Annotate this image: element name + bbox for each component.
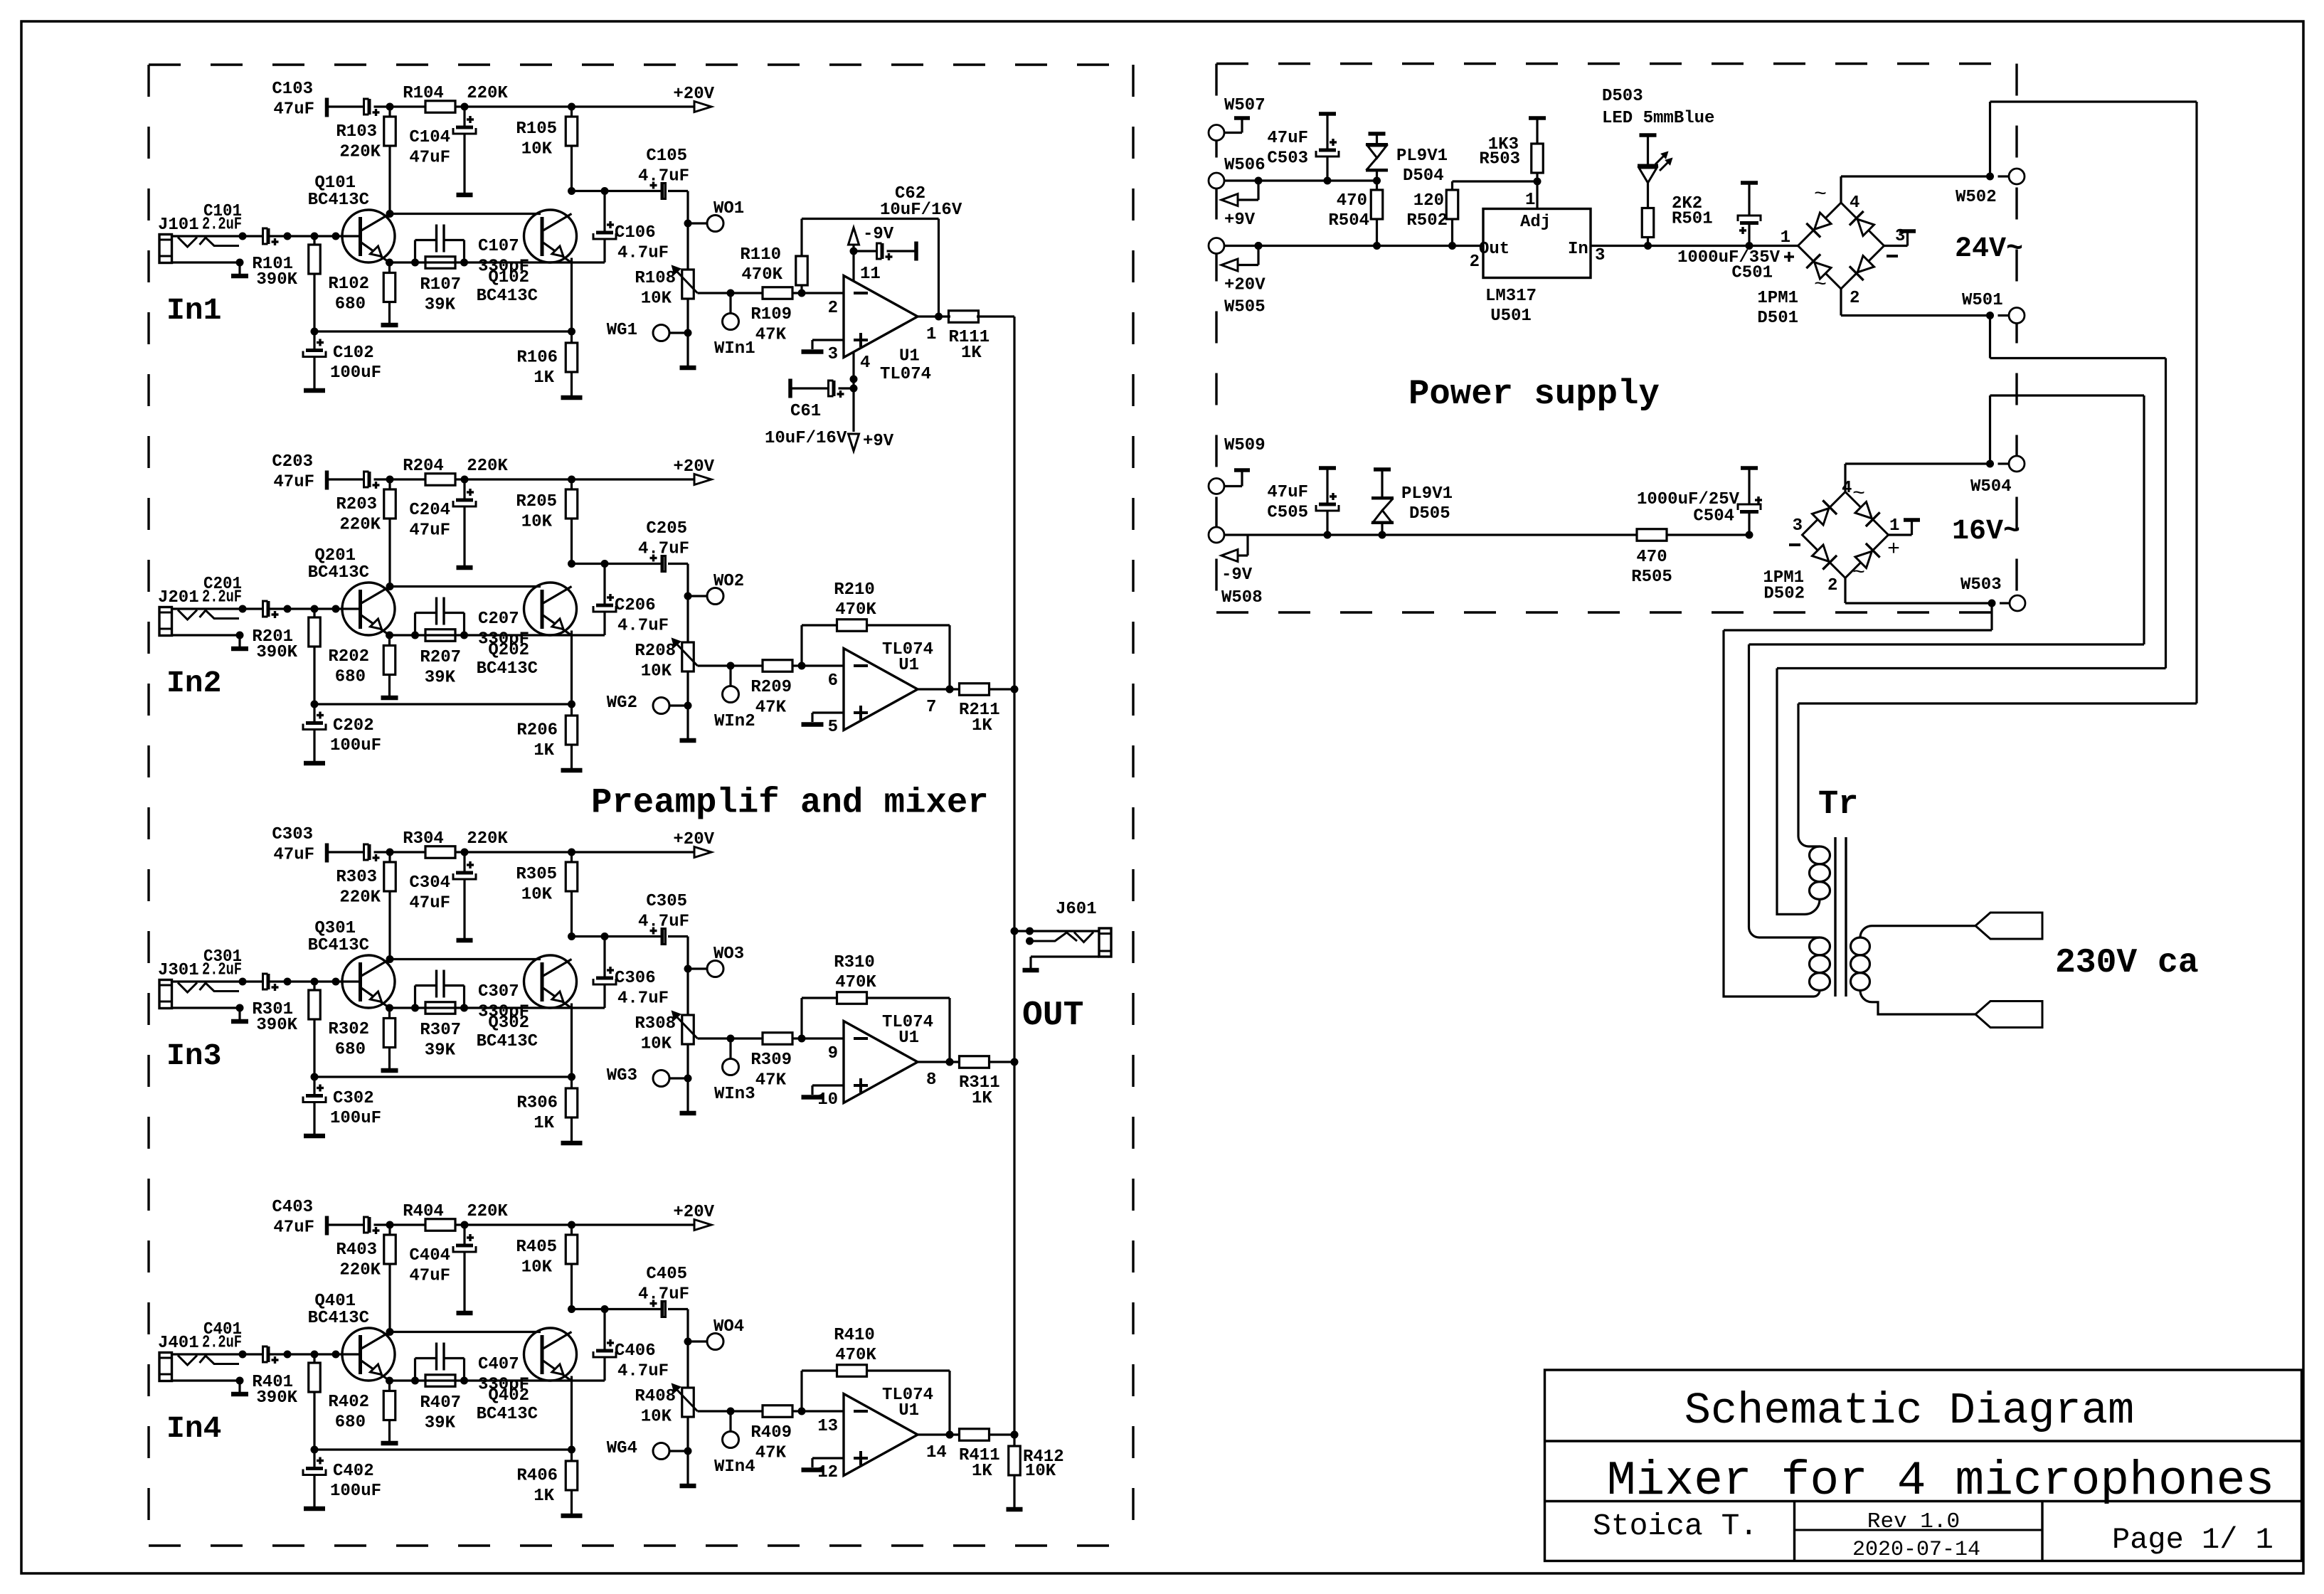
svg-text:3: 3 — [828, 345, 838, 364]
diode D501 upper-left (4 to 1) — [1815, 213, 1831, 229]
svg-text:R207: R207 — [420, 648, 461, 667]
terminal WO3 — [688, 967, 707, 969]
terminal W507 — [1209, 125, 1224, 141]
svg-text:R110: R110 — [740, 245, 781, 265]
capacitor C304 47uF — [463, 852, 465, 871]
svg-text:W502: W502 — [1956, 188, 1997, 207]
capacitor C405 4.7uF — [661, 1302, 664, 1317]
svg-text:R308: R308 — [635, 1014, 676, 1034]
resistor R302 680 — [388, 1008, 391, 1019]
svg-text:C203: C203 — [272, 452, 313, 472]
svg-text:4: 4 — [1842, 479, 1852, 498]
svg-text:4.7uF: 4.7uF — [617, 989, 669, 1009]
op-amp U1 TL074 channel 2 — [844, 649, 918, 730]
zener diode D504 PL9V1 — [1373, 177, 1381, 185]
svg-text:W501: W501 — [1962, 291, 2003, 310]
svg-text:Adj: Adj — [1520, 213, 1551, 232]
svg-text:C202: C202 — [333, 716, 374, 735]
jack tip contact marks — [178, 1356, 197, 1366]
wire emitter row to R106 — [314, 330, 572, 332]
wire bridge corner4 to W502 — [1840, 176, 1842, 203]
diode D501 upper-right (3 to 4) — [1857, 219, 1874, 235]
wire In pin to bridge — [1591, 245, 1798, 247]
svg-text:47uF: 47uF — [1267, 483, 1308, 502]
resistor R305 10K — [571, 852, 573, 862]
bridge D501 diamond — [1798, 203, 1884, 289]
resistor R505 470 — [1637, 529, 1667, 541]
svg-text:OUT: OUT — [1022, 997, 1083, 1035]
wire 24V winding top to W502 chain — [1798, 703, 1820, 846]
svg-text:1K: 1K — [534, 1487, 554, 1506]
svg-text:680: 680 — [335, 295, 366, 314]
capacitor C401 2.2uF — [263, 1346, 268, 1362]
svg-text:10K: 10K — [521, 886, 553, 905]
svg-text:390K: 390K — [256, 1388, 297, 1408]
svg-text:R405: R405 — [516, 1238, 557, 1257]
resistor R102 680 — [388, 262, 391, 273]
svg-text:Mixer for 4 microphones: Mixer for 4 microphones — [1607, 1454, 2275, 1509]
ground C102 — [304, 388, 325, 393]
svg-text:2: 2 — [1827, 576, 1837, 595]
svg-text:+20V: +20V — [673, 85, 714, 104]
svg-text:C501: C501 — [1731, 264, 1773, 283]
wire C201 to Q201 base — [268, 607, 360, 610]
resistor R402 680 — [388, 1381, 391, 1391]
resistor R201 390K — [313, 609, 315, 617]
wire Q302 emitter down — [571, 1004, 573, 1078]
svg-text:470K: 470K — [741, 265, 782, 285]
svg-text:R503: R503 — [1479, 150, 1520, 169]
svg-text:10K: 10K — [521, 1258, 553, 1277]
svg-text:U1: U1 — [899, 347, 920, 366]
svg-text:R209: R209 — [750, 678, 792, 697]
svg-text:C302: C302 — [333, 1089, 374, 1108]
wire +9V rail — [1224, 179, 1377, 181]
jack sleeve wire — [172, 1006, 240, 1009]
resistor R309 47K — [763, 1033, 792, 1045]
resistor R403 220K — [384, 1235, 396, 1264]
svg-text:R403: R403 — [336, 1240, 377, 1260]
wire Q202 collector node — [568, 560, 575, 568]
svg-text:W508: W508 — [1221, 588, 1263, 607]
wire Q201 emitter node — [386, 632, 393, 639]
svg-text:BC413C: BC413C — [477, 1032, 538, 1051]
resistor R410 470K (feedback) — [800, 1371, 802, 1411]
resistor R412 10K — [1011, 1431, 1019, 1439]
terminal WIn2 — [729, 666, 731, 686]
svg-text:2.2uF: 2.2uF — [202, 961, 242, 980]
power supply dashed box — [1216, 63, 2017, 65]
svg-text:WIn1: WIn1 — [714, 339, 755, 358]
output bus wire — [1013, 317, 1015, 1435]
terminal WG1 — [653, 325, 669, 341]
svg-text:220K: 220K — [339, 888, 381, 908]
svg-text:WIn2: WIn2 — [714, 712, 755, 731]
capacitor C105 4.7uF — [661, 184, 664, 199]
wire Q301 collector to Q302 base — [390, 958, 541, 960]
ground C402 — [304, 1507, 325, 1511]
op-amp U1 TL074 channel 1 — [844, 276, 918, 358]
wire Q301 collector up to R303 — [386, 955, 394, 963]
wire Q102 collector node — [568, 187, 575, 195]
connector J201 input jack — [159, 607, 172, 636]
wire Q301 emitter node — [386, 1004, 393, 1012]
svg-text:R502: R502 — [1406, 211, 1448, 230]
ground plus input — [812, 339, 844, 341]
svg-text:+20V: +20V — [673, 1203, 714, 1222]
LED D503 5mmBlue — [1644, 242, 1652, 250]
svg-text:47uF: 47uF — [273, 846, 314, 865]
svg-text:R107: R107 — [420, 275, 461, 294]
wire Q401 emitter node — [386, 1377, 393, 1385]
resistor R401 390K — [313, 1354, 315, 1363]
svg-text:R402: R402 — [328, 1393, 369, 1412]
svg-text:Page 1/ 1: Page 1/ 1 — [2112, 1523, 2273, 1557]
terminal WG2 — [653, 698, 669, 714]
svg-text:120: 120 — [1413, 191, 1444, 211]
svg-text:47uF: 47uF — [409, 149, 450, 168]
ground R206 — [561, 768, 583, 773]
transistor Q401 BC413C — [342, 1328, 395, 1381]
title block column separators — [1793, 1502, 1795, 1561]
svg-text:Out: Out — [1479, 240, 1509, 259]
svg-text:C303: C303 — [272, 825, 313, 844]
svg-text:W504: W504 — [1970, 477, 2012, 496]
resistor R109 47K — [763, 287, 792, 299]
svg-text:1: 1 — [1889, 516, 1899, 536]
svg-text:R103: R103 — [336, 122, 377, 142]
svg-text:47uF: 47uF — [409, 894, 450, 913]
wire jack tip to C201 — [172, 607, 263, 610]
transistor Q301 BC413C — [342, 955, 395, 1008]
svg-text:C406: C406 — [615, 1341, 656, 1361]
terminal W509 — [1209, 479, 1224, 494]
capacitor C103 47uF with stub terminal — [325, 98, 329, 117]
svg-text:1: 1 — [926, 325, 936, 344]
svg-text:R208: R208 — [635, 642, 676, 661]
svg-text:12: 12 — [817, 1463, 838, 1482]
svg-text:C204: C204 — [409, 501, 450, 520]
terminal W501 — [2009, 308, 2025, 324]
svg-text:47K: 47K — [755, 326, 787, 345]
svg-text:470K: 470K — [835, 600, 876, 620]
transistor Q201 BC413C — [342, 583, 395, 635]
wire Q401 collector to Q402 base — [390, 1331, 541, 1333]
svg-text:4: 4 — [860, 354, 870, 373]
+20V rail wire of channel 3 — [390, 851, 426, 853]
wire Q401 collector up to R403 — [386, 1328, 394, 1336]
ground jack sleeve — [231, 1019, 248, 1024]
svg-text:8: 8 — [926, 1070, 936, 1090]
svg-text:R108: R108 — [635, 269, 676, 288]
capacitor C206 4.7uF — [603, 564, 605, 605]
svg-text:1K: 1K — [972, 1462, 992, 1481]
wire Q101 emitter node — [386, 259, 393, 267]
op-amp U1 TL074 channel 3 — [844, 1021, 918, 1103]
resistor R103 220K — [384, 117, 396, 146]
svg-text:R406: R406 — [516, 1467, 558, 1486]
svg-text:R302: R302 — [328, 1020, 369, 1039]
svg-text:In2: In2 — [166, 666, 221, 701]
terminal WIn3 — [729, 1038, 731, 1059]
svg-text:Schematic Diagram: Schematic Diagram — [1684, 1386, 2135, 1436]
ground J601 — [1023, 968, 1039, 973]
svg-text:10K: 10K — [641, 1035, 672, 1054]
svg-text:C405: C405 — [646, 1265, 687, 1284]
jack sleeve wire — [172, 261, 240, 263]
svg-text:2.2uF: 2.2uF — [202, 588, 242, 607]
wire 24V winding bottom to W501 chain — [1777, 669, 1820, 915]
svg-text:R210: R210 — [834, 580, 875, 600]
svg-text:47uF: 47uF — [409, 1267, 450, 1286]
wire R308 bottom to ground — [686, 1044, 689, 1111]
wire C301 to Q301 base — [268, 980, 360, 982]
ground R102 — [381, 323, 398, 328]
svg-text:In1: In1 — [166, 293, 221, 328]
diode D502 upper-left (3 to 4) — [1812, 509, 1828, 525]
wire Q201 collector to Q202 base — [390, 585, 541, 588]
ground C204 — [457, 565, 473, 570]
svg-text:330pF: 330pF — [478, 257, 529, 277]
svg-text:Stoica T.: Stoica T. — [1593, 1509, 1758, 1543]
svg-text:470: 470 — [1636, 548, 1667, 567]
svg-text:390K: 390K — [256, 270, 297, 289]
resistor R203 220K — [384, 489, 396, 519]
+20V arrow terminal — [694, 474, 711, 485]
svg-text:R306: R306 — [516, 1094, 558, 1113]
wire primary top to upper mains blade — [1860, 926, 1975, 937]
svg-text:47uF: 47uF — [409, 521, 450, 541]
svg-text:+: + — [1887, 538, 1900, 562]
svg-text:39K: 39K — [425, 1414, 456, 1433]
ground R302 — [381, 1068, 398, 1073]
ground plus input — [812, 711, 844, 713]
svg-text:16V~: 16V~ — [1952, 516, 2020, 548]
svg-text:330pF: 330pF — [478, 1376, 529, 1395]
capacitor C503 47uF — [1324, 177, 1332, 185]
wire W501 to transformer — [1989, 316, 1991, 358]
svg-text:Q101: Q101 — [314, 174, 356, 193]
feedback wire R110 to output — [802, 218, 939, 220]
ground R406 — [561, 1514, 583, 1519]
svg-text:R106: R106 — [516, 349, 558, 368]
jack tip contact marks — [178, 238, 197, 248]
terminal W502 — [2009, 169, 2025, 184]
resistor R209 47K — [763, 660, 792, 672]
wire primary bottom to lower mains blade — [1860, 990, 1975, 1014]
capacitor C404 47uF — [463, 1225, 465, 1244]
svg-text:BC413C: BC413C — [308, 563, 369, 583]
resistor R104 220K — [425, 101, 455, 113]
connector J101 input jack — [159, 235, 172, 263]
wire C105 to WO1 node — [686, 191, 689, 224]
svg-text:Tr: Tr — [1818, 786, 1858, 824]
svg-text:47uF: 47uF — [1267, 129, 1308, 148]
svg-text:U501: U501 — [1490, 307, 1532, 326]
ground R208 — [680, 738, 696, 743]
svg-text:10K: 10K — [521, 513, 553, 532]
terminal W506 — [1209, 173, 1224, 188]
svg-text:In4: In4 — [166, 1411, 221, 1446]
ground R408 — [680, 1484, 696, 1489]
wire W503 to transformer — [1990, 603, 1993, 630]
svg-text:W505: W505 — [1224, 298, 1266, 317]
ground jack sleeve — [231, 274, 248, 279]
svg-text:5: 5 — [828, 718, 838, 737]
svg-text:R407: R407 — [420, 1393, 461, 1413]
svg-text:7: 7 — [926, 698, 936, 717]
svg-text:100uF: 100uF — [330, 1482, 381, 1501]
svg-text:220K: 220K — [467, 84, 508, 103]
ground R202 — [381, 696, 398, 701]
diode D502 lower-left (3 to 2) — [1812, 545, 1828, 561]
svg-text:C306: C306 — [615, 969, 656, 988]
svg-text:100uF: 100uF — [330, 1109, 381, 1128]
svg-text:In: In — [1568, 240, 1588, 259]
terminal WIn1 — [729, 293, 731, 314]
secondary winding 24V — [1810, 846, 1830, 864]
svg-text:C102: C102 — [333, 344, 374, 363]
wire Q402 collector node — [568, 1305, 575, 1313]
transformer core — [1834, 837, 1836, 997]
terminal WO1 — [688, 222, 707, 224]
wire Q101 collector up to R103 — [386, 210, 394, 218]
svg-text:W506: W506 — [1224, 156, 1266, 175]
transistor Q102 BC413C — [524, 210, 577, 262]
wire Q402 emitter down — [571, 1376, 573, 1450]
svg-text:10K: 10K — [1025, 1462, 1056, 1481]
svg-text:C304: C304 — [409, 873, 450, 893]
wire -9V rail — [1224, 533, 1637, 536]
mains plug blade upper — [1975, 913, 2042, 939]
svg-text:C105: C105 — [646, 147, 687, 166]
svg-text:+20V: +20V — [673, 830, 714, 849]
svg-text:J101: J101 — [158, 216, 199, 235]
capacitor C501 1000uF/35V — [1746, 242, 1753, 250]
capacitor C403 47uF with stub terminal — [325, 1216, 329, 1236]
svg-text:1PM1: 1PM1 — [1757, 289, 1798, 308]
resistor R407 39K — [411, 1377, 419, 1385]
mains plug blade lower — [1975, 1001, 2042, 1028]
svg-text:39K: 39K — [425, 669, 456, 688]
svg-text:TL074: TL074 — [882, 1386, 933, 1405]
svg-text:R310: R310 — [834, 953, 875, 972]
svg-text:R203: R203 — [336, 495, 377, 514]
bridge D502 diamond — [1803, 492, 1889, 578]
svg-text:4.7uF: 4.7uF — [617, 244, 669, 263]
wire emitter row to R206 — [314, 703, 572, 705]
svg-text:R104: R104 — [403, 84, 444, 103]
diode D501 lower-right (3 to 2) — [1857, 255, 1874, 272]
svg-text:C104: C104 — [409, 128, 450, 147]
resistor R306 1K — [571, 1077, 573, 1088]
svg-text:WG4: WG4 — [607, 1439, 637, 1458]
svg-text:470K: 470K — [835, 1346, 876, 1365]
svg-text:J401: J401 — [158, 1334, 199, 1353]
svg-text:39K: 39K — [425, 1041, 456, 1061]
ground R108 — [680, 366, 696, 371]
primary winding 230V — [1851, 937, 1870, 955]
svg-text:WO2: WO2 — [713, 572, 744, 591]
ground R402 — [381, 1441, 398, 1446]
resistor R304 220K — [425, 846, 455, 859]
svg-text:14: 14 — [926, 1443, 947, 1462]
capacitor C406 4.7uF — [603, 1309, 605, 1350]
svg-text:TL074: TL074 — [880, 365, 931, 384]
resistor R503 1K3 — [1532, 144, 1544, 173]
svg-text:220K: 220K — [467, 829, 508, 849]
svg-text:D504: D504 — [1403, 166, 1444, 186]
svg-text:WO1: WO1 — [713, 199, 744, 218]
svg-text:-9V: -9V — [1221, 565, 1253, 585]
ground C404 — [457, 1311, 473, 1316]
svg-text:BC413C: BC413C — [477, 1405, 538, 1424]
svg-text:R408: R408 — [635, 1387, 676, 1406]
svg-text:W507: W507 — [1224, 96, 1266, 115]
resistor R110 470K (feedback) — [796, 256, 808, 285]
wire Q302 collector node — [568, 933, 575, 940]
svg-text:39K: 39K — [425, 296, 456, 315]
capacitor C306 4.7uF — [603, 937, 605, 977]
svg-text:47K: 47K — [755, 1071, 787, 1090]
+20V arrow terminal — [694, 102, 711, 112]
svg-text:10: 10 — [817, 1090, 838, 1110]
wire bridge corner4 to W504 — [1844, 464, 1846, 492]
capacitor C202 100uF — [313, 704, 315, 723]
capacitor C504 1000uF/25V — [1746, 531, 1753, 539]
svg-text:13: 13 — [817, 1417, 838, 1436]
resistor R409 47K — [763, 1406, 792, 1418]
resistor R211 1K output — [918, 688, 960, 690]
svg-text:24V~: 24V~ — [1955, 233, 2023, 265]
terminal WO2 — [688, 595, 707, 597]
svg-text:WO4: WO4 — [713, 1317, 744, 1337]
wire jack tip to C101 — [172, 235, 263, 237]
svg-text:230V ca: 230V ca — [2055, 944, 2199, 982]
resistor R411 1K output — [918, 1433, 960, 1435]
wire W502 to transformer — [1989, 102, 1991, 176]
svg-text:R202: R202 — [328, 647, 369, 666]
wire 16V winding top to W504 chain — [1749, 644, 1820, 937]
svg-text:R307: R307 — [420, 1021, 461, 1040]
svg-text:R404: R404 — [403, 1202, 444, 1221]
svg-text:D501: D501 — [1757, 309, 1798, 328]
capacitor C203 47uF with stub terminal — [325, 471, 329, 490]
svg-text:C305: C305 — [646, 892, 687, 911]
wire C405 to WO4 node — [686, 1309, 689, 1342]
wire Q101 collector to Q102 base — [390, 213, 541, 215]
svg-text:11: 11 — [860, 265, 881, 284]
capacitor C207 330pF — [414, 613, 416, 636]
wire C205 to WO2 node — [686, 564, 689, 597]
ground jack sleeve — [231, 1392, 248, 1397]
wire Q201 collector up to R203 — [386, 583, 394, 590]
svg-text:3: 3 — [1595, 246, 1605, 265]
resistor R307 39K — [411, 1004, 419, 1012]
svg-text:1K: 1K — [534, 368, 554, 388]
svg-text:2.2uF: 2.2uF — [202, 1334, 242, 1353]
terminal WG3 — [653, 1070, 669, 1087]
svg-text:BC413C: BC413C — [308, 191, 369, 210]
svg-text:4.7uF: 4.7uF — [638, 167, 689, 186]
svg-text:10uF/16V: 10uF/16V — [880, 201, 962, 220]
resistor R205 10K — [571, 479, 573, 489]
wire C101 to Q101 base — [268, 235, 360, 237]
wire bridge corner2 to W501 — [1840, 289, 1842, 316]
svg-text:1K: 1K — [972, 1089, 992, 1108]
svg-text:W503: W503 — [1960, 575, 2002, 595]
terminal WO4 — [688, 1340, 707, 1342]
